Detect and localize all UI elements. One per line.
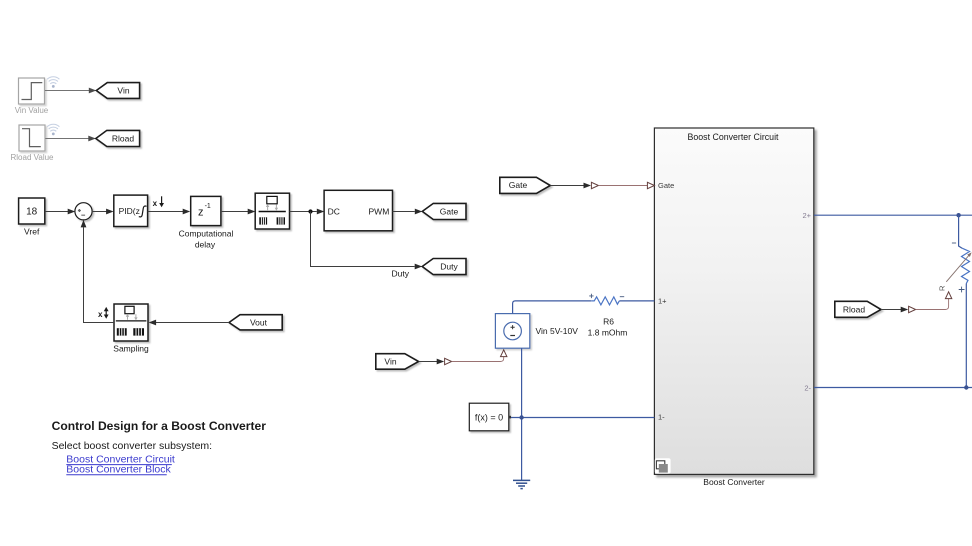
wire variable resistor to 2- net (965, 284, 967, 388)
subsystem preview badge (655, 458, 671, 473)
svg-text:Duty: Duty (440, 262, 458, 272)
source Vin 5V-10V (495, 314, 529, 349)
svg-text:PWM: PWM (369, 206, 390, 216)
wire 2+ net (814, 214, 972, 216)
wire duty branch (311, 212, 415, 267)
junction node (2+ net) (956, 213, 960, 217)
wire Rload tag to variable resistor control (881, 309, 901, 311)
from tag Vin (376, 354, 419, 370)
junction node duty (308, 209, 312, 213)
wire f(x)=0 to port 1- (511, 417, 654, 419)
wire Vin Value to Vin tag (45, 90, 89, 92)
goto tag Rload (96, 130, 140, 146)
svg-text:Rload Value: Rload Value (11, 153, 55, 162)
from tag Vout (229, 315, 282, 330)
delay z^-1 (191, 196, 221, 225)
step source Vin Value (19, 78, 45, 104)
subsystem PWM (324, 190, 392, 231)
svg-text:f(x) = 0: f(x) = 0 (475, 412, 503, 422)
svg-text:Vref: Vref (24, 226, 40, 236)
wire Vout to sampling (156, 322, 229, 324)
svg-text:Boost Converter: Boost Converter (703, 477, 765, 487)
wire Rload Value to Rload tag (45, 138, 88, 140)
goto tag Gate (422, 203, 466, 219)
goto tag Duty (422, 259, 466, 275)
svg-text:Gate: Gate (509, 180, 528, 190)
wire Vin tag to source control port (419, 361, 437, 363)
solver f(x)=0 (469, 403, 511, 431)
wire delay to rate transition (221, 211, 248, 213)
wire sum to PID (92, 211, 107, 213)
svg-text:Rload: Rload (112, 134, 134, 144)
wire 2+ to variable resistor (959, 215, 963, 248)
svg-text:Duty: Duty (392, 269, 410, 279)
wire source to R6 (1+ net) (513, 301, 592, 314)
junction node (2- net) (964, 385, 968, 389)
wire PWM to Gate tag (393, 211, 415, 213)
svg-text:18: 18 (26, 206, 38, 217)
hyperlink Boost Converter Circuit (66, 454, 175, 466)
svg-text:x: x (98, 310, 103, 319)
svg-text:Gate: Gate (658, 181, 674, 190)
svg-text:delay: delay (195, 239, 216, 249)
controller PID(z) (114, 195, 148, 226)
svg-text:2+: 2+ (802, 211, 811, 220)
constant Vref = 18 (19, 198, 45, 224)
tunable-parameter wifi badge (Rload Value) (47, 124, 59, 135)
svg-text:1-: 1- (658, 413, 665, 422)
svg-text:1+: 1+ (658, 297, 667, 306)
resistor R6 (589, 294, 624, 305)
sum block (75, 203, 92, 220)
junction node (1- net) (519, 415, 523, 419)
from tag Rload (835, 301, 881, 317)
svg-text:Vin Value: Vin Value (15, 106, 49, 115)
svg-text:Boost Converter Block: Boost Converter Block (66, 464, 171, 476)
wire PID to delay (148, 211, 184, 213)
svg-text:Boost Converter Circuit: Boost Converter Circuit (688, 132, 779, 142)
svg-text:Sampling: Sampling (113, 343, 149, 353)
wire Vref to sum (45, 211, 68, 213)
svg-text:Vout: Vout (250, 317, 268, 327)
wire sampling feedback to sum (84, 227, 115, 322)
goto tag Vin (96, 83, 139, 99)
svg-text:z: z (198, 206, 204, 218)
svg-text:Select boost converter subsyst: Select boost converter subsystem: (52, 440, 213, 452)
wire R6 to port 1+ (619, 300, 654, 302)
annotation x-updown (sample rate) (98, 307, 109, 319)
svg-text:R6: R6 (603, 316, 614, 326)
svg-text:Computational: Computational (179, 228, 234, 238)
tunable-parameter wifi badge (Vin Value) (47, 77, 59, 88)
svg-text:Vin: Vin (384, 356, 396, 366)
svg-text:x: x (153, 199, 158, 208)
subsystem Boost Converter (content preview) (654, 128, 813, 474)
svg-text:Vin 5V-10V: Vin 5V-10V (536, 326, 579, 336)
svg-text:2-: 2- (804, 383, 811, 392)
svg-text:R: R (938, 285, 947, 291)
svg-text:Control Design for a Boost Con: Control Design for a Boost Converter (52, 419, 267, 433)
svg-text:1.8 mOhm: 1.8 mOhm (588, 328, 628, 338)
svg-text:Vin: Vin (117, 86, 129, 96)
annotation x-down (rate decrease) (153, 196, 164, 208)
svg-text:-1: -1 (205, 203, 211, 210)
svg-text:Gate: Gate (440, 207, 459, 217)
rate transition block (255, 193, 289, 229)
wire rate transition to PWM (290, 211, 317, 213)
wire source minus down to ground / 1- net (521, 348, 523, 480)
wire Gate tag to subsystem (550, 185, 583, 187)
svg-text:DC: DC (328, 206, 340, 216)
sampling block (114, 304, 148, 341)
svg-text:PID(z: PID(z (119, 206, 140, 216)
hyperlink Boost Converter Block (66, 464, 171, 476)
ground (513, 480, 530, 488)
svg-text:Rload: Rload (843, 304, 865, 314)
from tag Gate (500, 177, 551, 193)
variable resistor R (load) (938, 243, 972, 292)
wire 2- net (814, 387, 972, 389)
step source Rload Value (19, 125, 45, 151)
